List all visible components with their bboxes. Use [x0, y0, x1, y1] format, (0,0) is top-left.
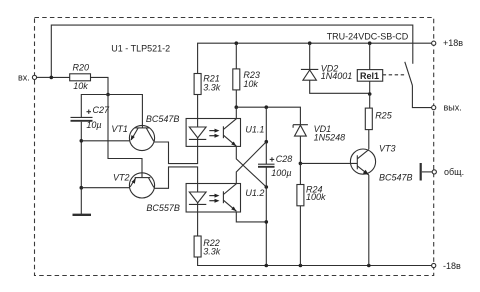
node C28 bottom — [265, 185, 269, 189]
node VD2 top — [308, 41, 312, 45]
svg-text:3.3k: 3.3k — [203, 247, 221, 257]
dashed enclosure border — [35, 18, 434, 276]
wire: node B right to VT1 base — [108, 95, 142, 128]
resistor R25 — [365, 108, 372, 130]
node D (VT2 emitter junction) — [80, 186, 84, 190]
node A (input junction) — [50, 76, 54, 80]
wire: rail to Rel1 — [369, 43, 371, 69]
svg-text:3.3k: 3.3k — [203, 82, 221, 92]
transistor VT3 — [350, 149, 375, 174]
wire: node B down to VT2 base — [108, 95, 142, 178]
svg-text:U1.1: U1.1 — [245, 124, 264, 134]
svg-text:BC547B: BC547B — [146, 114, 180, 124]
svg-text:100µ: 100µ — [271, 168, 291, 178]
wire: rail to R23 — [235, 43, 237, 69]
wire: VT1 emitter — [81, 140, 129, 142]
capacitor C27 — [71, 116, 93, 118]
wire: C27 bottom to ground line — [80, 122, 82, 188]
svg-text:U1 - TLP521-2: U1 - TLP521-2 — [111, 44, 170, 54]
wire: node to R25 — [369, 94, 371, 108]
VT2 emitter arrow (PNP, points toward base) — [132, 178, 136, 184]
svg-text:R25: R25 — [375, 110, 393, 120]
wire: U1.1 emitter diagonal to C28 bottom node — [236, 146, 266, 187]
node rail C28 — [265, 264, 269, 268]
resistor R23 — [233, 69, 240, 90]
relay coil Rel1 — [357, 70, 382, 82]
wire: C28 leads — [265, 142, 267, 266]
wire: VT3 emitter down to rail — [368, 175, 370, 266]
terminal общ — [432, 170, 436, 174]
resistor R24 — [299, 163, 301, 184]
wire: R25 to VT3 collector — [368, 130, 370, 150]
terminal -18в — [432, 263, 436, 267]
svg-text:Rel1: Rel1 — [360, 71, 379, 81]
node C28 top — [265, 140, 269, 144]
wire: U1.2 emitter to C28 bottom line — [236, 212, 266, 222]
node B — [106, 93, 110, 97]
общ bar symbol — [420, 163, 422, 181]
wire: R21 bottom to U1.1 box — [197, 95, 199, 119]
wire: R20 output to node B — [91, 77, 109, 94]
terminal вых — [432, 106, 436, 110]
wire: U1.2 LED cathode to R22 — [197, 212, 199, 236]
svg-text:BC547B: BC547B — [379, 173, 413, 183]
wire: VT1 collector to U1.1 LED cathode — [154, 142, 197, 164]
svg-text:VT3: VT3 — [379, 143, 396, 153]
terminal вх — [32, 75, 36, 79]
optocoupler U1.2 — [186, 184, 240, 213]
node rail R24 — [299, 264, 303, 268]
node rail VT3 — [367, 264, 371, 268]
ground — [80, 188, 82, 215]
capacitor C28 — [258, 163, 275, 165]
node F (tap to C28) — [265, 105, 269, 109]
wire: R23 bottom to node E — [235, 90, 237, 107]
transistor VT2 — [129, 173, 154, 198]
svg-text:BC557B: BC557B — [146, 203, 180, 213]
+18в rail — [198, 43, 432, 73]
svg-text:C27: C27 — [93, 105, 111, 115]
resistor R22 — [194, 236, 201, 257]
svg-text:VT2: VT2 — [113, 173, 130, 183]
svg-text:10k: 10k — [73, 81, 88, 91]
svg-text:+18в: +18в — [443, 38, 463, 48]
node Rel1 top — [368, 41, 372, 45]
relay contact blade — [405, 62, 413, 86]
transistor VT1 — [129, 125, 154, 150]
node R23 top — [235, 41, 239, 45]
node E — [235, 105, 239, 109]
svg-text:1N5248: 1N5248 — [314, 133, 346, 143]
wire: node F down to C28 top node — [265, 107, 267, 142]
wire: node A up and across top to relay contact — [51, 25, 413, 77]
svg-text:U1.2: U1.2 — [245, 188, 264, 198]
svg-text:вых.: вых. — [444, 103, 462, 113]
wire: Rel1 bottom — [369, 81, 371, 94]
wire: U1.2 collector diagonal to C28 top node — [236, 142, 266, 184]
wire: node E to VD1 — [236, 107, 300, 124]
wire: node B left to C27 top — [81, 95, 108, 118]
resistor R21 — [194, 74, 201, 95]
node VD1/R24/VT3 base — [299, 162, 303, 166]
wire: contact to вых — [412, 85, 431, 107]
terminal +18в — [432, 41, 436, 45]
wire: VT2 emitter — [81, 187, 129, 189]
wire: R22 bottom to -18в rail — [198, 257, 432, 266]
wire: VT2 collector to U1.2 LED anode — [155, 167, 198, 188]
svg-text:общ.: общ. — [444, 167, 464, 177]
zener diode VD1 — [295, 125, 307, 136]
svg-text:вх.: вх. — [18, 73, 30, 83]
resistor R20 — [70, 74, 91, 81]
svg-text:10k: 10k — [243, 79, 258, 89]
dashed link Rel1 to contact — [383, 74, 405, 76]
wire: node to VT3 base — [300, 162, 357, 164]
diode VD2 — [309, 43, 311, 69]
wire: вх terminal to node A — [37, 76, 52, 78]
svg-text:VT1: VT1 — [111, 124, 128, 134]
node Rel1 bottom — [368, 92, 372, 96]
svg-text:C28: C28 — [276, 154, 293, 164]
wire: U1.1 collector up to node E — [235, 107, 237, 118]
svg-text:100k: 100k — [306, 192, 326, 202]
node C (VT1 emitter junction) — [80, 139, 84, 143]
svg-text:10µ: 10µ — [86, 120, 101, 130]
optocoupler U1.1 — [186, 119, 240, 147]
wire: R20 input — [51, 76, 69, 78]
svg-text:1N4001: 1N4001 — [321, 71, 353, 81]
svg-text:TRU-24VDC-SB-CD: TRU-24VDC-SB-CD — [327, 32, 409, 42]
node U1.2 emitter junction — [265, 220, 269, 224]
VT1 emitter arrow — [131, 135, 135, 141]
svg-text:-18в: -18в — [443, 261, 461, 271]
svg-text:R20: R20 — [73, 62, 90, 72]
